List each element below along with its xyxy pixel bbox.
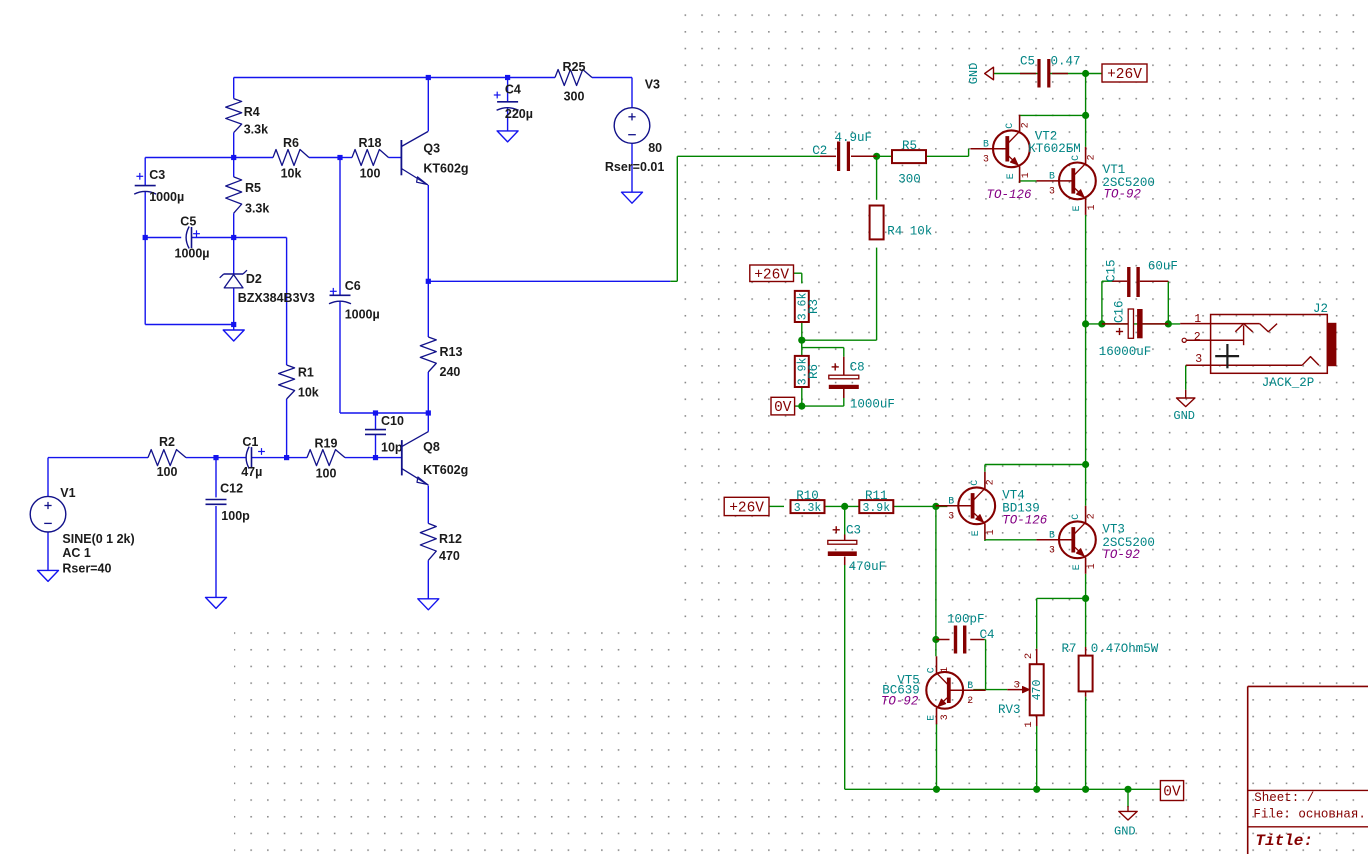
svg-text:TO-126: TO-126 [1002, 514, 1048, 528]
svg-text:R12: R12 [439, 532, 462, 546]
svg-text:E: E [926, 715, 937, 721]
junction dots (KiCad) [798, 70, 1172, 793]
svg-text:R7: R7 [1062, 642, 1077, 656]
capacitor C4 (100pF) [936, 612, 994, 653]
ground [497, 131, 518, 142]
svg-text:VT1: VT1 [1103, 163, 1126, 177]
resistor R5 [892, 139, 926, 163]
svg-text:3: 3 [1049, 545, 1055, 556]
svg-text:3.3k: 3.3k [794, 502, 822, 515]
ground [1119, 806, 1137, 820]
svg-text:JACK_2P: JACK_2P [1262, 376, 1315, 390]
svg-text:0V: 0V [774, 400, 792, 416]
svg-text:3: 3 [948, 511, 954, 522]
svg-text:B: B [967, 680, 973, 691]
svg-text:1000uF: 1000uF [850, 397, 895, 411]
svg-text:J2: J2 [1313, 302, 1328, 316]
svg-text:60uF: 60uF [1148, 259, 1178, 273]
svg-text:2: 2 [985, 479, 996, 485]
power flag GND (top) [967, 63, 994, 85]
capacitor C1 [241, 435, 265, 479]
svg-text:100: 100 [157, 465, 178, 479]
voltage source V1 [30, 496, 66, 532]
svg-text:100: 100 [360, 167, 381, 181]
svg-text:3.9k: 3.9k [862, 502, 890, 515]
svg-text:B: B [983, 138, 989, 149]
svg-text:Title:: Title: [1255, 832, 1313, 850]
svg-text:VT4: VT4 [1002, 488, 1025, 502]
title block [1248, 686, 1368, 854]
svg-text:Sheet: /: Sheet: / [1254, 791, 1314, 805]
resistor R6 [795, 356, 821, 387]
svg-text:R25: R25 [563, 60, 586, 74]
resistor R25 [555, 60, 592, 103]
svg-text:470: 470 [439, 549, 460, 563]
svg-text:3: 3 [939, 714, 950, 720]
label VT1 [1102, 163, 1155, 202]
ground [223, 330, 244, 341]
capacitor C8 [829, 357, 895, 412]
svg-text:C: C [1070, 514, 1081, 520]
svg-text:3.3k: 3.3k [245, 202, 269, 216]
svg-text:C6: C6 [345, 279, 361, 293]
voltage source V3 [614, 108, 650, 144]
svg-text:0.47: 0.47 [1051, 55, 1081, 69]
svg-text:3: 3 [983, 154, 989, 165]
svg-text:TO-92: TO-92 [881, 695, 919, 709]
wire KiCad nets [670, 74, 1185, 808]
svg-text:KT602g: KT602g [423, 463, 468, 477]
transistor VT4 [936, 472, 997, 540]
svg-text:C: C [926, 667, 937, 673]
resistor R18 [352, 136, 389, 181]
svg-text:R4 10k: R4 10k [887, 225, 932, 239]
svg-text:240: 240 [440, 365, 461, 379]
svg-text:+26V: +26V [729, 500, 764, 516]
svg-text:B: B [1049, 529, 1055, 540]
resistor R3 [795, 291, 821, 322]
capacitor C5 [175, 215, 210, 261]
svg-text:C: C [969, 480, 980, 486]
svg-text:3: 3 [1049, 186, 1055, 197]
power flag +26V left [724, 497, 769, 516]
svg-text:1000µ: 1000µ [175, 246, 210, 260]
svg-text:C15: C15 [1105, 259, 1119, 282]
svg-text:2: 2 [1194, 331, 1201, 344]
capacitor C12 [206, 481, 251, 522]
svg-text:1: 1 [985, 529, 996, 535]
capacitor C4 [494, 83, 533, 122]
svg-text:C1: C1 [242, 435, 258, 449]
svg-text:1: 1 [1023, 721, 1035, 727]
resistor R12 [420, 523, 462, 563]
svg-text:B: B [948, 495, 954, 506]
resistor R13 [420, 337, 462, 379]
svg-text:R6: R6 [283, 136, 299, 150]
svg-text:R5: R5 [902, 139, 917, 153]
svg-text:C10: C10 [381, 414, 404, 428]
resistor R4 [870, 206, 884, 240]
capacitor C10 [365, 414, 404, 454]
resistor R2 [148, 435, 186, 479]
svg-text:300: 300 [898, 173, 921, 187]
svg-text:80: 80 [648, 141, 662, 155]
svg-text:R6: R6 [807, 364, 821, 379]
svg-text:0V: 0V [1163, 785, 1181, 801]
svg-text:TO-92: TO-92 [1104, 188, 1142, 202]
label VT5 [881, 674, 920, 709]
svg-text:Q8: Q8 [423, 440, 440, 454]
capacitor C3 [134, 168, 184, 204]
capacitor C15 [1105, 259, 1178, 297]
connector J2 JACK_2P [1180, 302, 1336, 390]
svg-text:R13: R13 [440, 345, 463, 359]
svg-text:100: 100 [316, 467, 337, 481]
svg-text:E: E [1071, 205, 1082, 211]
svg-text:C3: C3 [846, 523, 861, 537]
svg-text:V1: V1 [60, 486, 75, 500]
svg-text:R4: R4 [244, 105, 260, 119]
svg-text:+26V: +26V [1107, 67, 1142, 83]
svg-text:10p: 10p [381, 440, 403, 454]
label VT2 [987, 130, 1081, 202]
power flag 0V bottom [1160, 781, 1183, 801]
svg-text:+26V: +26V [754, 267, 789, 283]
resistor R5 [226, 177, 270, 216]
capacitor C3 (470uF) [828, 523, 886, 574]
cursor crosshair [1215, 344, 1239, 368]
transistor VT2 [970, 115, 1031, 183]
svg-text:KT602g: KT602g [423, 162, 468, 176]
svg-text:E: E [1005, 173, 1016, 179]
svg-text:1000µ: 1000µ [149, 190, 184, 204]
svg-text:2: 2 [1085, 513, 1096, 519]
svg-text:1: 1 [1194, 313, 1201, 326]
svg-text:КТ602БМ: КТ602БМ [1028, 142, 1081, 156]
label VT3 [1102, 522, 1155, 562]
svg-text:E: E [1071, 564, 1082, 570]
svg-text:C: C [1070, 155, 1081, 161]
power flag 0V left [771, 397, 795, 416]
svg-text:300: 300 [564, 89, 585, 103]
svg-text:VT3: VT3 [1102, 522, 1125, 536]
svg-text:C: C [1004, 123, 1015, 129]
svg-text:0.47Ohm5W: 0.47Ohm5W [1091, 642, 1159, 656]
svg-text:1000µ: 1000µ [345, 308, 380, 322]
junction nodes (LTspice) [143, 75, 511, 460]
transistor Q3 [401, 132, 468, 186]
svg-text:C2: C2 [812, 144, 827, 158]
svg-text:2: 2 [1019, 122, 1030, 128]
diode D2 (zener) [220, 270, 315, 305]
resistor R7 [1062, 642, 1159, 697]
svg-text:10k: 10k [298, 386, 319, 400]
svg-text:2: 2 [1085, 154, 1096, 160]
svg-text:B: B [1049, 170, 1055, 181]
svg-text:10k: 10k [281, 167, 302, 181]
svg-text:D2: D2 [246, 272, 262, 286]
svg-text:GND: GND [1114, 824, 1136, 838]
ground [38, 570, 59, 581]
svg-text:1: 1 [1086, 563, 1097, 569]
capacitor C6 [329, 279, 380, 322]
transistor VT5 [926, 656, 986, 724]
resistor R19 [307, 437, 345, 481]
ground [622, 192, 643, 203]
svg-text:SINE(0 1 2k): SINE(0 1 2k) [62, 532, 134, 546]
svg-text:File: основная.: File: основная. [1253, 808, 1366, 822]
svg-text:47µ: 47µ [241, 465, 262, 479]
svg-text:R2: R2 [159, 435, 175, 449]
svg-text:2: 2 [1023, 653, 1035, 659]
svg-text:C12: C12 [220, 481, 243, 495]
label V3 [605, 78, 664, 174]
svg-text:R3: R3 [807, 299, 821, 314]
svg-text:1: 1 [939, 667, 950, 673]
svg-text:1: 1 [1086, 204, 1097, 210]
svg-text:220µ: 220µ [505, 107, 533, 121]
svg-text:TO-92: TO-92 [1102, 548, 1140, 562]
svg-text:C4: C4 [980, 628, 995, 642]
resistor R6 [273, 136, 309, 181]
svg-text:R10: R10 [796, 489, 819, 503]
svg-text:3: 3 [1014, 680, 1020, 692]
svg-text:R1: R1 [298, 366, 314, 380]
svg-text:GND: GND [1173, 409, 1195, 423]
power flag +26V top [1102, 64, 1147, 83]
svg-text:C5: C5 [1020, 55, 1035, 69]
resistor R1 [279, 365, 319, 400]
transistor VT3 [1036, 506, 1097, 574]
svg-text:R11: R11 [865, 489, 888, 503]
ground [418, 599, 439, 610]
label VT4 [1002, 488, 1048, 527]
svg-text:R18: R18 [359, 136, 382, 150]
capacitor C2 [812, 131, 876, 171]
svg-text:C3: C3 [149, 168, 165, 182]
wire LTspice nets [48, 78, 670, 599]
potentiometer RV3 [998, 649, 1044, 728]
svg-text:470: 470 [1031, 680, 1044, 701]
svg-text:R5: R5 [245, 181, 261, 195]
resistor R4 [226, 99, 268, 137]
capacitor C16 [1099, 300, 1169, 358]
svg-text:C5: C5 [180, 215, 196, 229]
svg-text:AC 1: AC 1 [62, 546, 91, 560]
svg-text:Rser=0.01: Rser=0.01 [605, 160, 664, 174]
svg-text:3.3k: 3.3k [244, 123, 268, 137]
svg-text:3: 3 [1195, 353, 1202, 366]
svg-text:470uF: 470uF [849, 560, 887, 574]
transistor VT1 [1036, 147, 1097, 215]
svg-text:C16: C16 [1113, 300, 1127, 323]
resistor R11 [859, 489, 893, 515]
label V1 [60, 486, 134, 575]
svg-text:1: 1 [1020, 172, 1031, 178]
svg-text:TO-126: TO-126 [987, 188, 1033, 202]
svg-text:BZX384B3V3: BZX384B3V3 [238, 291, 315, 305]
svg-text:E: E [970, 530, 981, 536]
svg-text:100pF: 100pF [947, 612, 985, 626]
svg-text:RV3: RV3 [998, 703, 1021, 717]
svg-text:GND: GND [967, 63, 981, 85]
svg-text:C4: C4 [505, 83, 521, 97]
svg-text:R19: R19 [315, 437, 338, 451]
ground [206, 597, 227, 608]
power flag +26V mid [750, 265, 794, 283]
svg-text:V3: V3 [645, 78, 660, 92]
transistor Q8 [402, 432, 468, 486]
svg-text:100p: 100p [221, 509, 250, 523]
svg-text:Rser=40: Rser=40 [62, 561, 111, 575]
svg-text:2: 2 [967, 695, 973, 706]
svg-text:16000uF: 16000uF [1099, 345, 1152, 359]
resistor R10 [791, 489, 825, 515]
capacitor C5 (0.47) [1020, 55, 1081, 88]
svg-text:4.9uF: 4.9uF [835, 131, 873, 145]
ground [1177, 390, 1195, 407]
svg-text:Q3: Q3 [423, 141, 440, 155]
svg-text:C8: C8 [850, 360, 865, 374]
